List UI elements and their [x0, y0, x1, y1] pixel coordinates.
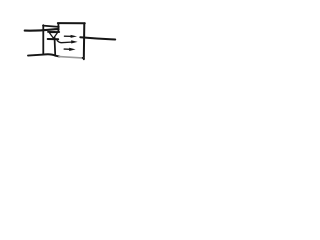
light arrow 3 head: [69, 48, 75, 51]
wire anode lead left: [25, 29, 59, 31]
box right edge: [83, 23, 86, 59]
wire cathode lead bottom left: [28, 55, 44, 56]
wire output right: [80, 37, 115, 39]
light arrow 2 head: [71, 40, 77, 43]
box bottom edge dark segment: [43, 54, 60, 56]
LED D1 anode step connector: [57, 24, 59, 32]
box top edge left segment: [43, 26, 59, 27]
light arrow 2 shaft: [57, 41, 73, 43]
LED D1 cathode center line: [53, 32, 56, 55]
LED D1 triangle: [49, 33, 57, 39]
box bottom right corner: [83, 57, 84, 59]
LED D1 anode bar: [48, 31, 59, 33]
light arrow 1 head: [71, 35, 77, 38]
LED D1 cathode bar: [48, 38, 59, 40]
box left edge: [42, 25, 44, 54]
box top edge right segment: [58, 22, 85, 24]
light arrow 1 shaft: [64, 35, 72, 37]
light arrow 3 shaft: [64, 48, 71, 50]
box bottom edge faint segment: [59, 57, 84, 59]
